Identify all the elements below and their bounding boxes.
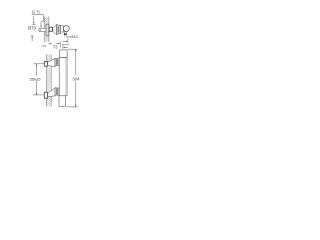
escutcheon (Ø70 rosette) — [46, 24, 49, 36]
svg-text:73: 73 — [53, 45, 58, 50]
dimension 150±15: vertical line — [35, 64, 37, 76]
label Ø43 underline — [66, 36, 70, 38]
cone of valve body — [53, 25, 57, 35]
svg-text:150±15: 150±15 — [29, 77, 41, 82]
valve body bar 1 — [57, 25, 58, 35]
dimension 150±15: bottom extension line — [33, 94, 44, 96]
dimension Ø70 top tick — [32, 23, 35, 25]
bottom union: in-wall elbow (square) — [44, 92, 47, 98]
svg-text:G ½: G ½ — [32, 9, 41, 14]
dimension Ø70 bottom tick — [31, 35, 34, 37]
valve neck — [58, 28, 59, 32]
dimension 73: inner arrow — [48, 43, 50, 45]
valve front rect — [61, 26, 64, 32]
dimension 73: lower left-pointing arrow — [65, 47, 68, 49]
dimension 73: left arrow — [41, 45, 45, 47]
supply pipe stub (G 1/2) — [39, 28, 50, 32]
dimension Ø70 top arrow — [33, 16, 35, 23]
union nut (square, white center) — [49, 27, 52, 31]
dimension 73: right bar — [59, 41, 61, 47]
handle (circle) — [63, 26, 69, 32]
svg-text:Ø70: Ø70 — [28, 26, 37, 31]
dimension 304: bottom extension line — [66, 106, 78, 108]
thermostat body: bottom cap — [59, 96, 65, 107]
bottom union: S-cone — [48, 88, 55, 97]
top union: in-wall elbow (square) — [44, 61, 47, 66]
Ø43 extension bar — [67, 38, 69, 43]
Ø43 arrow — [63, 40, 67, 42]
dimension Ø70 bottom arrow — [31, 38, 33, 41]
thermostat body: main tube — [59, 58, 67, 96]
valve body bar 2 — [59, 25, 61, 34]
body inner highlight line — [64, 58, 66, 95]
dimension 73: right arrow — [56, 43, 58, 45]
top union: S-cone — [48, 58, 55, 67]
bottom union: nut — [55, 88, 59, 96]
dimension 73: second bar — [62, 43, 64, 48]
dimension 304: vertical line (gap for text) — [75, 49, 77, 75]
dimension 150±15: top extension line — [34, 63, 45, 65]
thermostat body: top cap — [60, 50, 67, 58]
top union: nut — [55, 58, 59, 66]
dimension 304: top extension line — [68, 48, 77, 50]
leader of G 1/2 — [32, 15, 44, 27]
svg-text:304: 304 — [72, 76, 80, 81]
wall section (hatched) — [44, 17, 49, 42]
svg-text:Ø43: Ø43 — [70, 34, 77, 39]
handle stem — [64, 32, 66, 35]
stem drop lines — [64, 35, 66, 36]
dimension 73: tail line — [63, 44, 69, 46]
wall section (hatched) — [46, 54, 51, 106]
